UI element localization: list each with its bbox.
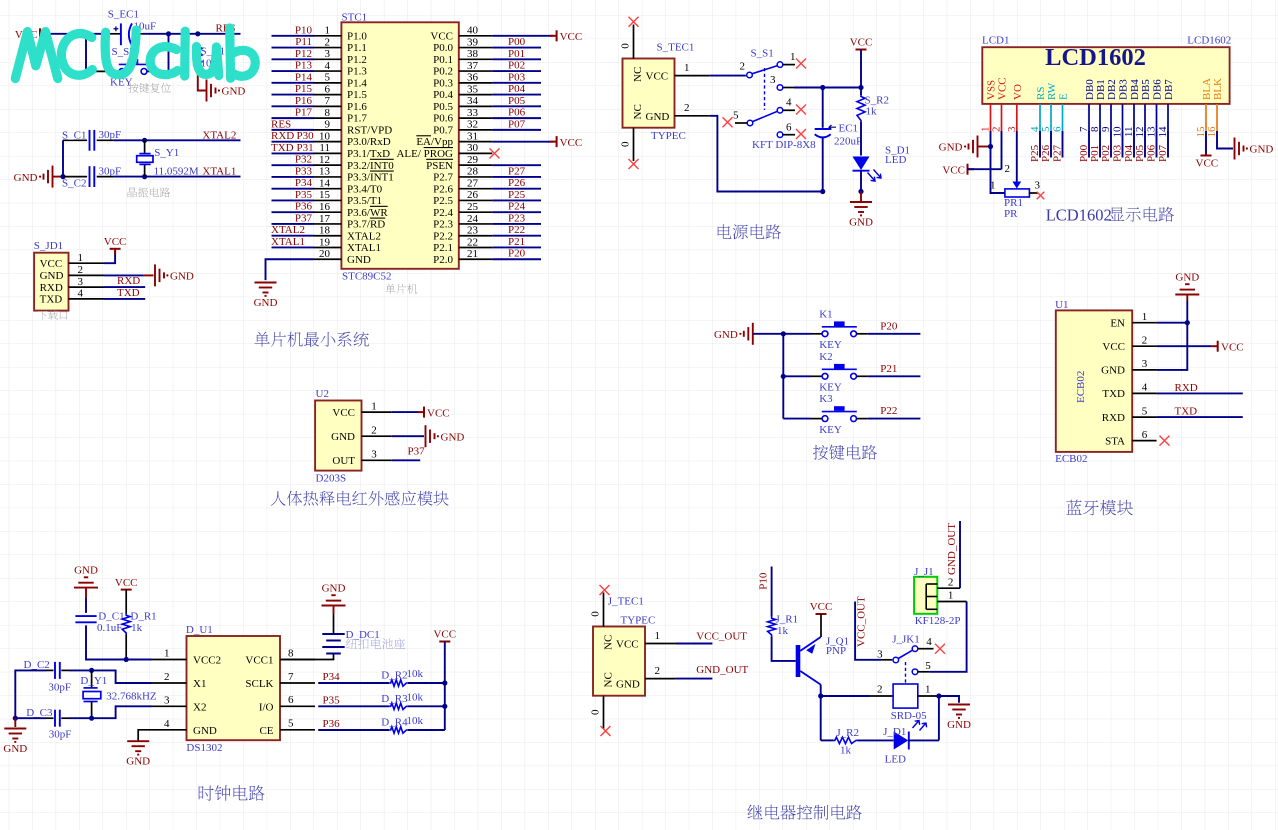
junction dot XTAL1/crystal [142,174,147,179]
svg-text:P03: P03 [1112,144,1124,162]
junction dot XTAL2/crystal [142,138,147,143]
D_U1 pin 4 GND [152,729,187,731]
svg-text:S_JD1: S_JD1 [34,240,63,252]
wire net RES pin 9 [272,129,314,131]
svg-text:STC1: STC1 [342,12,368,24]
svg-text:1k: 1k [777,625,789,637]
svg-text:19: 19 [319,236,331,248]
wire net P21 pin 22 [492,246,541,248]
J_JK1 lever 3-4 [898,650,912,658]
svg-text:2: 2 [877,683,883,695]
wire P35 to D_R3 [318,705,389,707]
svg-text:P3.4/T0: P3.4/T0 [347,183,383,195]
wire net P17 pin 8 [272,117,314,119]
svg-text:1: 1 [325,25,331,37]
svg-text:P0.7: P0.7 [433,124,453,136]
power ground GND (U2) [426,425,435,447]
STC1 pin 10 P3.0/RxD [314,141,342,143]
junction dot X1 node [89,668,94,673]
svg-text:10: 10 [319,130,331,142]
wire P10 down to J_R1 [771,567,773,617]
svg-text:4: 4 [786,97,792,109]
wire net P35 pin 15 [272,199,314,201]
svg-text:P25: P25 [508,189,526,201]
capacitor D_C1 0.1uF [75,616,96,622]
wire net P03 pin 36 [492,82,541,84]
wire net P27 pin 28 [492,176,541,178]
svg-text:X1: X1 [193,678,206,690]
power ground GND (LCD left) [978,146,991,148]
svg-text:P20: P20 [508,248,526,260]
wire LCD VO to potentiometer [1016,131,1018,184]
S_S1 lever 2-1 [752,66,778,74]
svg-text:DB7: DB7 [1163,79,1175,100]
wire S_JD1 GND [104,274,144,276]
U1 pin 1 EN [1132,322,1156,324]
resistor J_R1 1k [768,617,776,637]
svg-text:D_R3: D_R3 [381,693,408,705]
junction dot LCD VSS [988,144,993,149]
svg-text:P14: P14 [295,71,313,83]
STC1 pin 24 P2.3 [459,223,493,225]
connector J_J1 KF128-2P body [914,577,937,614]
svg-text:4: 4 [926,636,932,648]
svg-text:0.1uF: 0.1uF [97,622,122,634]
svg-text:1: 1 [684,62,690,74]
svg-text:P37: P37 [295,212,313,224]
svg-text:NC: NC [632,104,644,119]
svg-text:VCC: VCC [1221,341,1244,353]
svg-text:3: 3 [325,48,331,60]
svg-text:K1: K1 [819,308,832,320]
svg-text:14: 14 [319,177,331,189]
svg-text:P2.0: P2.0 [433,254,453,266]
wire net XTAL1 pin 19 [272,246,314,248]
svg-text:2: 2 [740,61,746,73]
svg-text:TXD: TXD [1175,405,1198,417]
S_S1 contact 3 [777,85,783,91]
wire LCD P03 [1122,131,1124,158]
svg-text:GND: GND [193,725,217,737]
wire net P05 pin 34 [492,105,541,107]
svg-text:ECB02: ECB02 [1075,371,1087,403]
wire J_J1 pin2 GND_OUT [959,521,961,588]
power ground GND (reset) [207,80,216,102]
svg-text:VCC: VCC [560,137,583,149]
svg-text:K3: K3 [819,393,833,405]
wire net P02 pin 37 [492,70,541,72]
svg-text:ALE/ PROG: ALE/ PROG [396,148,453,160]
svg-text:1: 1 [990,180,996,192]
svg-text:P1.1: P1.1 [347,42,367,54]
junction dot relay right [936,693,941,698]
svg-text:LED: LED [885,754,906,766]
wire net P16 pin 7 [272,105,314,107]
svg-text:P27: P27 [508,165,526,177]
svg-text:P02: P02 [1100,145,1112,162]
section title 单片机最小系统 [254,332,368,347]
power port VCC (clock right) [439,641,450,643]
svg-text:P22: P22 [880,405,897,417]
svg-text:VCC: VCC [332,407,355,419]
resistor D_R3 10k [389,703,408,709]
svg-text:XTAL1: XTAL1 [347,242,381,254]
svg-text:J_J1: J_J1 [914,566,934,578]
resistor D_R4 10k [389,727,408,733]
svg-text:DB2: DB2 [1106,79,1118,100]
IC U STC1 STC89C52 body [341,22,458,268]
S_JD1 pin 3 RXD [69,286,105,288]
no-ERC mark PR1 pin 3 [1037,192,1045,200]
svg-text:P02: P02 [508,60,525,72]
power port VCC pin 31 [550,136,557,147]
S_JD1 pin 2 GND [69,274,105,276]
D_U1 pin 7 SCLK [280,682,315,684]
svg-text:33: 33 [467,107,479,119]
no-ERC mark S_TEC1 bottom [629,159,639,169]
svg-text:PSEN: PSEN [426,160,453,172]
svg-text:P10: P10 [758,572,770,590]
svg-text:16: 16 [319,201,331,213]
no-ERC mark pin 30 [490,148,500,158]
svg-text:TYPEC: TYPEC [621,615,656,627]
svg-text:220uF: 220uF [834,136,862,148]
svg-text:P04: P04 [508,83,526,95]
STC1 pin 28 P2.7 [459,176,493,178]
J_TEC1 top pin 0 [603,593,605,627]
svg-text:2: 2 [655,665,661,677]
svg-text:8: 8 [288,647,294,659]
svg-text:5: 5 [325,72,331,84]
no-ERC mark J_TEC1 bottom [601,726,611,736]
wire net pin 11 [272,152,314,154]
J_JK1 contact 3 [881,659,892,661]
svg-text:GND: GND [331,431,355,443]
wire D_R2 to VCC rail [408,682,445,684]
svg-text:30: 30 [467,142,479,154]
connector S_TEC1 TYPEC body [623,59,675,128]
power ground GND (relay) [948,705,970,718]
svg-text:VCC2: VCC2 [193,655,221,667]
wire U1 RXD to TXD net [1157,416,1243,418]
svg-text:GND: GND [254,297,278,309]
svg-text:3: 3 [371,449,377,461]
svg-text:X2: X2 [193,701,206,713]
svg-text:VCC_OUT: VCC_OUT [696,631,747,643]
wire J_TEC1 GND_OUT [675,678,712,680]
svg-text:25: 25 [467,201,479,213]
power ground GND (battery top) [322,595,346,605]
svg-text:P06: P06 [508,107,526,119]
STC1 pin 32 P0.7 [459,129,493,131]
STC1 pin 38 P0.1 [459,58,493,60]
svg-text:I/O: I/O [259,701,274,713]
transistor J_Q1 PNP [796,645,801,677]
J_JK1 contact 5 [912,669,918,675]
wire S_TEC1 GND to bottom rail [710,116,823,192]
svg-text:10k: 10k [407,668,424,680]
S_D1 emission arrows [868,173,876,182]
svg-text:P30: P30 [297,130,315,142]
svg-text:P07: P07 [1157,144,1169,162]
capacitor S_C2 30pF [90,166,95,187]
wire VCC_OUT down to switch pin 3 [855,602,881,660]
junction dot [195,31,200,36]
svg-text:6: 6 [325,83,331,95]
svg-text:30pF: 30pF [49,729,72,741]
svg-text:2: 2 [325,36,331,48]
svg-text:P17: P17 [295,107,313,119]
capacitor D_C3 30pF [55,710,60,727]
svg-text:3: 3 [1035,179,1041,191]
section title 蓝牙模块 [1066,500,1133,516]
STC1 pin 9 RST/VPD [314,129,342,131]
svg-text:GND: GND [616,679,640,691]
wire net P06 pin 33 [492,117,541,119]
svg-text:TXD: TXD [40,294,63,306]
wire J_R2 to LED [858,739,894,741]
STC1 pin 27 P2.6 [459,188,493,190]
svg-text:NC: NC [632,67,644,82]
svg-text:P34: P34 [295,177,313,189]
svg-text:23: 23 [467,225,479,237]
svg-text:VCC: VCC [115,577,138,589]
svg-text:GND: GND [939,142,963,154]
svg-text:P2.3: P2.3 [433,219,453,231]
svg-text:RXD: RXD [1175,382,1198,394]
svg-text:P23: P23 [508,212,526,224]
wire to S_C1 [63,139,87,141]
svg-text:P36: P36 [295,201,313,213]
wire LCD P04 [1133,131,1135,158]
junction dot clock VCC rail 1 [442,680,447,685]
IC D_U1 DS1302 body [187,636,281,740]
svg-text:VCC_OUT: VCC_OUT [856,596,868,647]
svg-text:P20: P20 [880,320,898,332]
wire net P14 pin 5 [272,82,314,84]
svg-text:12: 12 [319,154,330,166]
svg-text:EC1: EC1 [839,123,859,135]
wire LCD P02 [1110,131,1112,158]
svg-text:STC89C52: STC89C52 [342,271,392,283]
U2 pin 1 VCC [362,411,392,413]
wire LCD P27 [1062,131,1064,158]
svg-text:0: 0 [620,43,632,49]
svg-text:P05: P05 [1134,144,1146,162]
svg-text:XTAL2: XTAL2 [271,224,305,236]
svg-text:P15: P15 [295,83,313,95]
wire U2 VCC [392,411,418,413]
svg-text:2: 2 [1142,334,1148,346]
svg-text:VCC: VCC [810,601,833,613]
svg-text:GND: GND [1101,365,1125,377]
svg-text:8: 8 [325,107,331,119]
svg-text:P3.3/INT1: P3.3/INT1 [347,172,394,184]
svg-text:RXD: RXD [117,275,140,287]
svg-text:GND: GND [126,756,150,768]
wire J_TEC1 VCC_OUT [675,643,712,645]
wire pin 29 PSEN [492,164,541,166]
wire S_C1 to XTAL2 net [97,139,114,141]
svg-text:VCC: VCC [560,31,583,43]
svg-text:0: 0 [590,709,602,715]
svg-text:P33: P33 [295,165,313,177]
wire VCC to D_R1 [125,590,127,614]
STC1 pin 34 P0.5 [459,105,493,107]
label 纽扣电池座 [346,638,405,649]
STC1 pin 22 P2.1 [459,246,493,248]
svg-text:P35: P35 [323,694,341,706]
wire LCD BLA to VCC [1205,131,1207,154]
resistor S_R1 10k [194,45,202,72]
resistor D_R2 10k [389,680,408,686]
svg-text:P35: P35 [295,189,313,201]
power ground GND (keys) [744,323,753,345]
svg-text:P3.7/RD: P3.7/RD [347,219,385,231]
STC1 pin 7 P1.6 [314,105,342,107]
svg-text:D_Y1: D_Y1 [80,675,107,687]
wire net P32 pin 12 [272,164,314,166]
svg-text:P12: P12 [295,48,312,60]
button K2 KEY [783,375,810,377]
section title 电源电路 [718,224,781,239]
svg-text:S_TEC1: S_TEC1 [657,42,695,54]
wire J_R1 to base [772,636,796,661]
svg-text:3: 3 [877,649,883,661]
svg-text:P0.6: P0.6 [433,113,453,125]
svg-text:RST/VPD: RST/VPD [347,124,392,136]
svg-text:U2: U2 [316,388,329,400]
svg-text:KFT DIP-8X8: KFT DIP-8X8 [752,139,816,151]
D_U1 pin 5 CE [280,729,315,731]
svg-text:5: 5 [925,660,931,672]
svg-text:DB6: DB6 [1152,79,1164,100]
svg-text:NC: NC [603,672,615,687]
svg-text:S_S1: S_S1 [751,47,774,59]
svg-text:D_R2: D_R2 [381,670,407,682]
power port VCC (D_R1 top) [121,589,132,591]
S_S1 contact 1 [777,62,783,68]
svg-text:1: 1 [1142,311,1148,323]
STC1 pin 25 P2.4 [459,211,493,213]
wire S_JD1 TXD [104,298,145,300]
svg-text:P0.4: P0.4 [433,89,453,101]
wire S_JD1 VCC to power port [104,251,115,264]
power port VCC (reset circuit) [40,28,47,39]
wire left branch down to button S_S2 [85,34,87,72]
svg-text:GND: GND [322,582,346,594]
wire K3 to P22 [868,418,921,420]
svg-text:U1: U1 [1055,299,1068,311]
svg-text:P34: P34 [323,671,341,683]
svg-text:31: 31 [467,130,478,142]
svg-text:D_U1: D_U1 [186,624,213,636]
svg-text:RES: RES [271,118,291,130]
wire pin 40 VCC [492,35,553,37]
svg-text:10k: 10k [407,691,424,703]
S_JD1 pin 1 VCC [69,262,105,264]
svg-text:XTAL1: XTAL1 [202,166,236,178]
svg-text:GND: GND [3,743,27,755]
svg-text:2: 2 [164,671,170,683]
STC1 pin 4 P1.3 [314,70,342,72]
svg-text:P2.2: P2.2 [433,230,453,242]
svg-text:1: 1 [790,51,796,63]
svg-text:2: 2 [78,264,84,276]
power ground GND (below STC1) [255,283,277,296]
power port VCC (power circuit) [856,49,867,51]
junction dot S_R2 top [858,85,863,90]
J_J1 pin 2 stub [937,587,960,589]
D_U1 pin 8 VCC1 [280,659,315,661]
svg-text:6: 6 [786,122,792,134]
STC1 pin 30 ALE/PROG [459,152,493,154]
STC1 pin 1 P1.0 [314,35,342,37]
S_S1 contact 2 [746,75,747,77]
wire node to J_R2 [821,739,834,741]
junction dot VCC2 rail [124,657,129,662]
wire net P34 pin 14 [272,188,314,190]
svg-text:P11: P11 [295,36,312,48]
svg-text:39: 39 [467,36,479,48]
S_S1 lever 5-4 [753,111,778,121]
svg-text:37: 37 [467,60,479,72]
svg-text:VCC: VCC [850,37,873,49]
svg-text:J_R2: J_R2 [836,727,859,739]
svg-text:VCC: VCC [1196,158,1219,170]
wire net XTAL2 pin 18 [272,235,314,237]
svg-text:36: 36 [467,72,479,84]
STC1 pin 5 P1.4 [314,82,342,84]
svg-text:7: 7 [325,95,331,107]
power ground GND (S_JD1) [155,264,164,286]
wire U2 GND [392,435,424,437]
svg-text:1: 1 [78,252,84,264]
svg-text:DB5: DB5 [1140,79,1152,100]
wire branch vertical [62,140,64,176]
wire EN junction to GND pin [1157,322,1188,324]
svg-text:P3.1/TxD: P3.1/TxD [347,148,390,160]
junction dot crystal gnd branch [60,174,65,179]
S_S1 contact 6 [777,132,783,138]
wire net P23 pin 24 [492,223,541,225]
wire D_C1 to VCC2 rail [86,625,126,659]
wire VCC to reset node [47,33,110,35]
button K1 KEY [783,333,810,335]
U1 pin 3 GND [1132,369,1156,371]
wire D_C2 to left vertical [46,669,54,671]
svg-text:5: 5 [1142,405,1148,417]
svg-text:2: 2 [371,424,377,436]
STC1 pin 21 P2.0 [459,258,493,260]
PR1 pin 1 wire [991,147,1005,194]
wire pin 31 VCC [492,141,553,143]
svg-text:XTAL2: XTAL2 [347,230,381,242]
svg-text:LCD1602: LCD1602 [1046,206,1112,225]
svg-text:3: 3 [78,276,84,288]
svg-text:P3.0/RxD: P3.0/RxD [347,136,391,148]
U1 pin 5 RXD [1132,416,1156,418]
svg-text:GND: GND [714,329,738,341]
svg-text:GND: GND [1250,144,1274,156]
svg-text:KF128-2P: KF128-2P [915,615,961,627]
power ground GND (crystal left) [14,718,16,727]
capacitor S_C1 30pF [90,130,95,151]
svg-text:32.768kHZ: 32.768kHZ [106,691,157,703]
STC1 pin 26 P2.5 [459,199,493,201]
svg-text:P10: P10 [295,24,313,36]
wire GND to keys branch [753,333,784,335]
